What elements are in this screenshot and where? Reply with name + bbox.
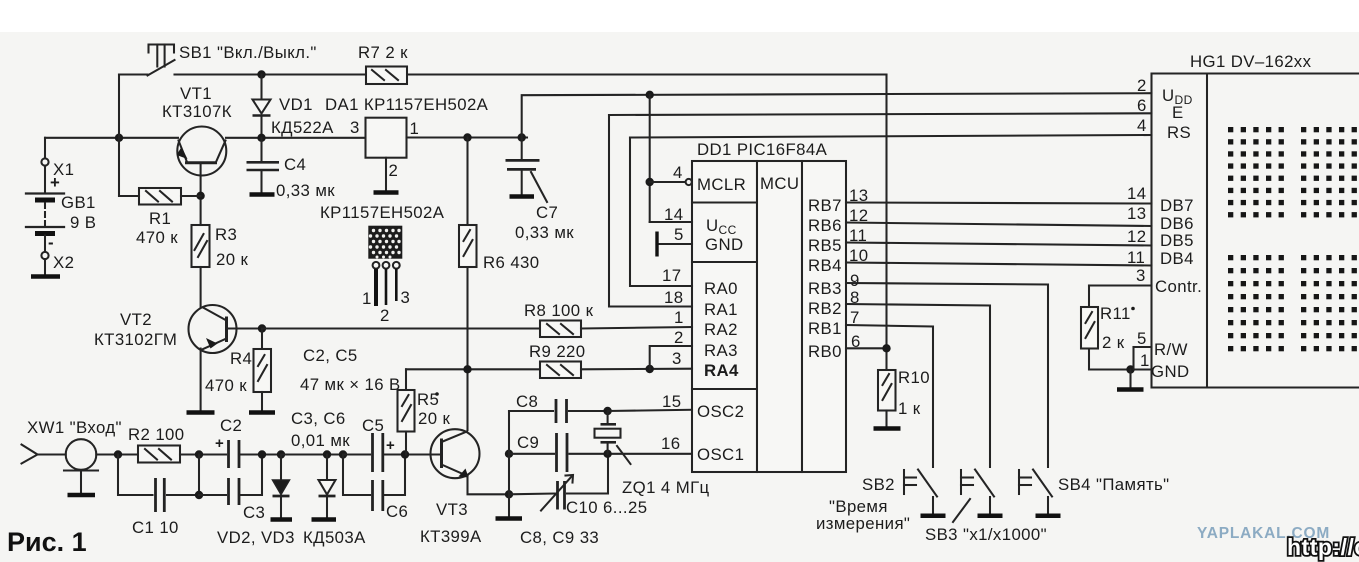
svg-text:КД522А: КД522А <box>271 118 334 137</box>
svg-text:+: + <box>386 437 395 454</box>
svg-text:470 к: 470 к <box>205 376 247 395</box>
svg-text:17: 17 <box>662 266 681 285</box>
svg-text:3: 3 <box>401 288 411 307</box>
node emitter ground <box>505 490 513 498</box>
wire VT2 emitter ground <box>200 349 202 411</box>
svg-text:C3: C3 <box>243 503 265 522</box>
capacitor C8 <box>509 410 553 412</box>
capacitor C6 branch <box>343 455 370 496</box>
wire R3 to VT2 collector <box>200 267 202 307</box>
svg-text:R9 220: R9 220 <box>529 342 586 361</box>
pin 11 RB5 wire <box>846 243 1152 246</box>
svg-text:1: 1 <box>410 119 420 138</box>
capacitor C9 <box>509 453 554 455</box>
node ZQ1 bottom <box>603 450 611 458</box>
regulator DA1 box <box>366 118 407 158</box>
svg-text:13: 13 <box>1127 204 1146 223</box>
svg-text:0,01 мк: 0,01 мк <box>291 431 350 450</box>
svg-text:9 В: 9 В <box>70 213 96 232</box>
svg-text:RB7: RB7 <box>808 196 842 215</box>
svg-text:SB4 "Память": SB4 "Память" <box>1058 475 1170 494</box>
svg-text:2 к: 2 к <box>1102 333 1125 352</box>
svg-text:C2, C5: C2, C5 <box>303 346 358 365</box>
svg-text:4: 4 <box>1137 116 1147 135</box>
svg-text:1: 1 <box>362 289 372 308</box>
svg-text:RS: RS <box>1167 123 1191 142</box>
svg-text:20 к: 20 к <box>216 250 249 269</box>
resistor R6 <box>466 138 468 226</box>
svg-text:OSC1: OSC1 <box>697 445 744 464</box>
svg-text:8: 8 <box>850 288 860 307</box>
node VD1-C4 <box>257 134 265 142</box>
svg-text:RA3: RA3 <box>704 341 738 360</box>
pin 3 wire <box>581 368 692 371</box>
svg-text:12: 12 <box>1127 227 1146 246</box>
svg-text:КР1157ЕН502А: КР1157ЕН502А <box>320 203 445 222</box>
svg-text:0,33 мк: 0,33 мк <box>276 181 335 200</box>
node C2 out <box>258 450 266 458</box>
wire X1 to battery <box>44 166 46 192</box>
wire X1 to top rail <box>44 138 46 159</box>
wire SB1 left vertical <box>118 75 120 197</box>
svg-text:КТ3107К: КТ3107К <box>162 102 232 121</box>
wire MCLR from +5 rail <box>646 91 654 99</box>
svg-text:ZQ1 4 МГц: ZQ1 4 МГц <box>622 478 710 497</box>
svg-text:VT2: VT2 <box>120 310 152 329</box>
svg-text:R3: R3 <box>215 225 237 244</box>
svg-text:SB2: SB2 <box>862 475 895 494</box>
svg-text:14: 14 <box>664 205 683 224</box>
connector X1 <box>41 158 48 165</box>
LCD dot matrix <box>1228 127 1357 351</box>
node C1 left <box>114 450 122 458</box>
svg-text:измерения": измерения" <box>816 514 910 533</box>
svg-text:2: 2 <box>674 328 684 347</box>
node VT2 base R4 <box>258 324 266 332</box>
svg-text:SB3 "x1/x1000": SB3 "x1/x1000" <box>925 525 1047 544</box>
C10 arrow <box>541 476 573 511</box>
resistor R11 <box>1089 284 1152 286</box>
svg-text:3: 3 <box>1136 266 1146 285</box>
svg-text:DA1 КР1157ЕН502А: DA1 КР1157ЕН502А <box>325 95 489 114</box>
svg-text:18: 18 <box>664 288 683 307</box>
svg-text:SB1 "Вкл./Выкл.": SB1 "Вкл./Выкл." <box>179 43 317 62</box>
svg-text:2: 2 <box>1137 76 1147 95</box>
svg-text:1: 1 <box>674 308 684 327</box>
svg-text:КТ399А: КТ399А <box>420 527 482 546</box>
resistor R2 <box>138 446 180 463</box>
svg-text:RB0: RB0 <box>808 342 842 361</box>
wire R5 to R9 rail <box>406 368 540 370</box>
svg-text:2: 2 <box>380 306 390 325</box>
svg-text:VT1: VT1 <box>180 84 212 103</box>
svg-text:DB4: DB4 <box>1160 249 1194 268</box>
svg-text:470 к: 470 к <box>136 228 178 247</box>
svg-text:R4: R4 <box>230 349 252 368</box>
SB3 leader line <box>953 499 970 522</box>
button SB3 <box>960 470 962 494</box>
svg-text:C1 10: C1 10 <box>132 518 179 537</box>
wire VD2 to VD3 <box>281 453 343 455</box>
svg-text:12: 12 <box>849 206 868 225</box>
diode VD1 <box>260 75 262 100</box>
node R6 R9 <box>463 365 471 373</box>
svg-text:C3, C6: C3, C6 <box>291 409 346 428</box>
svg-text:R1: R1 <box>149 209 171 228</box>
wire E line <box>609 113 1152 115</box>
svg-text:7: 7 <box>850 308 860 327</box>
svg-text:VD1: VD1 <box>279 95 313 114</box>
pin 7 RB1 wire to SB2 <box>846 325 933 467</box>
svg-text:C6: C6 <box>386 502 408 521</box>
ground C7 <box>510 194 535 199</box>
svg-text:DB7: DB7 <box>1160 196 1194 215</box>
svg-text:RB3: RB3 <box>808 279 842 298</box>
wire DA1 out <box>407 136 528 138</box>
ground battery <box>31 274 60 279</box>
svg-text:RB4: RB4 <box>808 256 842 275</box>
svg-text:1: 1 <box>1140 351 1150 370</box>
pin 13 RB7 wire <box>846 203 1152 204</box>
node R2 out <box>195 450 203 458</box>
svg-text:11: 11 <box>849 226 867 245</box>
pin 9 RB3 wire to SB4 <box>846 283 1048 467</box>
resistor R1 <box>139 188 181 205</box>
svg-text:C9: C9 <box>517 433 539 452</box>
pin 5 GND stub <box>658 243 692 245</box>
svg-text:GND: GND <box>705 235 744 254</box>
diode VD3 <box>326 455 328 480</box>
pin 1 wire <box>581 327 692 329</box>
svg-text:3: 3 <box>672 349 682 368</box>
wire top rail left <box>45 137 178 139</box>
svg-text:3: 3 <box>350 118 360 137</box>
pin 10 RB4 wire <box>846 263 1152 266</box>
svg-text:RB2: RB2 <box>808 299 842 318</box>
wire RS line <box>630 135 1152 138</box>
crystal ZQ1 <box>607 411 609 423</box>
svg-text:КТ3102ГМ: КТ3102ГМ <box>94 330 177 349</box>
svg-text:C8, C9 33: C8, C9 33 <box>520 528 599 547</box>
pin 12 RB6 wire <box>846 223 1152 227</box>
connector X2 <box>41 252 48 259</box>
svg-text:15: 15 <box>662 392 681 411</box>
svg-text:OSC2: OSC2 <box>697 402 744 421</box>
svg-text:XW1 "Вход": XW1 "Вход" <box>27 418 122 437</box>
node ZQ1 top <box>603 407 611 415</box>
ground XW1 <box>68 493 96 498</box>
node VD3 <box>323 450 331 458</box>
resistor R5 <box>405 369 407 390</box>
svg-text:R/W: R/W <box>1154 340 1188 359</box>
wire SB1 to R7 and beyond <box>175 73 887 75</box>
MCU DD1 left box <box>692 161 757 472</box>
svg-text:10: 10 <box>849 246 868 265</box>
svg-text:-: - <box>48 233 54 252</box>
pin 6 RB0 wire <box>846 347 887 349</box>
ZQ1 leader line <box>617 446 631 464</box>
svg-text:E: E <box>1172 103 1184 122</box>
DA1 pin2 ground <box>385 158 387 190</box>
svg-text:Contr.: Contr. <box>1155 277 1202 296</box>
svg-text:16: 16 <box>661 434 680 453</box>
battery GB1 cell 1 <box>26 192 64 194</box>
resistor R10 <box>878 370 896 411</box>
svg-text:R8 100 к: R8 100 к <box>524 301 594 320</box>
svg-text:+: + <box>50 173 60 192</box>
svg-text:Рис. 1: Рис. 1 <box>7 527 87 557</box>
resistor R7 <box>366 67 407 85</box>
svg-text:GB1: GB1 <box>61 193 96 212</box>
svg-text:RB6: RB6 <box>808 216 842 235</box>
wire VT1 collector to VD1 node <box>226 137 366 139</box>
capacitor C2 <box>227 440 230 468</box>
button SB2 <box>903 470 905 494</box>
svg-text:47 мк × 16 В: 47 мк × 16 В <box>300 375 401 394</box>
ground R10 <box>885 411 887 427</box>
svg-text:DD1 PIC16F84A: DD1 PIC16F84A <box>697 140 828 159</box>
node C7 top <box>518 133 526 141</box>
svg-text:MCU: MCU <box>760 174 799 193</box>
svg-text:GND: GND <box>1151 362 1190 381</box>
node VD1 top <box>257 70 265 78</box>
svg-text:R6 430: R6 430 <box>483 253 540 272</box>
svg-text:5: 5 <box>1137 329 1147 348</box>
svg-text:2: 2 <box>389 161 399 180</box>
switch SB1 <box>119 73 148 75</box>
capacitor C5 <box>343 453 370 455</box>
svg-text:C2: C2 <box>220 416 242 435</box>
capacitor C3 branch <box>199 494 226 496</box>
svg-text:RB1: RB1 <box>808 319 842 338</box>
pin 18 wire from E line <box>609 115 692 307</box>
capacitor C4 <box>260 138 262 161</box>
wire R2 to C2 <box>180 453 226 455</box>
svg-text:VD2, VD3: VD2, VD3 <box>217 528 295 547</box>
wire XW1 to R2 <box>96 453 138 455</box>
pin 15 wire <box>608 410 692 411</box>
svg-text:R7 2 к: R7 2 к <box>358 43 408 62</box>
svg-text:RA1: RA1 <box>704 300 738 319</box>
R/W bracket <box>1134 346 1152 348</box>
svg-text:6: 6 <box>1137 96 1147 115</box>
svg-text:VT3: VT3 <box>436 500 468 519</box>
svg-text:RA0: RA0 <box>704 279 738 298</box>
svg-text:MCLR: MCLR <box>697 175 746 194</box>
wire +5 rail up corner <box>522 93 1152 137</box>
svg-text:11: 11 <box>1127 248 1145 267</box>
ground emitter <box>508 494 510 516</box>
node C5 left <box>339 450 347 458</box>
svg-text:6: 6 <box>851 332 861 351</box>
svg-text:5: 5 <box>674 225 684 244</box>
MCU DD1 middle box <box>757 161 802 472</box>
pin 4 MCLR circle <box>650 181 686 183</box>
svg-text:20 к: 20 к <box>418 409 451 428</box>
resistor R9 <box>540 362 581 379</box>
svg-text:R11: R11 <box>1100 304 1131 323</box>
battery GB1 cell 2 <box>26 226 64 228</box>
ground C4 <box>250 192 275 197</box>
svg-text:4: 4 <box>673 163 683 182</box>
node R6 top <box>463 133 471 141</box>
svg-text:C8: C8 <box>516 392 538 411</box>
pin 8 RB2 wire to SB3 <box>846 304 990 467</box>
resistor R3 <box>192 225 210 267</box>
package pins <box>373 262 380 269</box>
svg-text:C5: C5 <box>362 416 384 435</box>
transistor VT2 <box>189 305 237 353</box>
svg-text:http://с: http://с <box>1287 534 1359 560</box>
transistor VT3 <box>431 429 480 478</box>
resistor R8 <box>262 327 540 329</box>
pin 17 wire from RS line <box>630 138 692 287</box>
svg-text:R2 100: R2 100 <box>128 425 185 444</box>
svg-text:DB5: DB5 <box>1160 231 1194 250</box>
node C8 C9 left <box>505 450 513 458</box>
transistor VT1 <box>177 127 226 176</box>
MCU DD1 right box <box>802 161 846 472</box>
svg-text:RB5: RB5 <box>808 236 842 255</box>
C7 leader line <box>531 172 547 202</box>
svg-text:R10: R10 <box>898 368 930 387</box>
svg-text:1 к: 1 к <box>898 399 921 418</box>
wire VT3 emitter <box>468 476 510 494</box>
svg-text:X2: X2 <box>53 253 74 272</box>
button SB4 <box>1018 470 1020 494</box>
svg-text:14: 14 <box>1127 184 1146 203</box>
svg-text:C7: C7 <box>536 203 558 222</box>
svg-text:C4: C4 <box>284 155 306 174</box>
resistor R4 <box>261 329 263 350</box>
ground R11 <box>1129 370 1131 388</box>
LCD HG1 box <box>1152 74 1359 388</box>
svg-text:КД503А: КД503А <box>303 528 366 547</box>
svg-text:HG1 DV–162xx: HG1 DV–162xx <box>1190 52 1312 71</box>
battery dashed link <box>44 203 46 225</box>
node R1-R3-VT1 base <box>196 192 204 200</box>
node R5 bottom <box>401 450 409 458</box>
svg-text:13: 13 <box>849 186 868 205</box>
svg-text:RA2: RA2 <box>704 320 738 339</box>
node VD2 <box>277 450 285 458</box>
pin 14 wire <box>650 221 692 223</box>
node RA3 RA4 bracket <box>646 365 654 373</box>
wire X2 to ground <box>44 259 46 275</box>
diode VD2 <box>280 455 282 480</box>
svg-text:+: + <box>215 435 224 452</box>
capacitor C10 branch <box>509 492 555 495</box>
svg-text:RA4: RA4 <box>704 361 739 380</box>
wire R7 to RB0 vertical <box>885 75 887 371</box>
capacitor C1 branch <box>118 455 153 496</box>
node X1 rail and SB1 vertical <box>115 134 123 142</box>
svg-text:C10 6...25: C10 6...25 <box>566 498 647 517</box>
capacitor C7 <box>521 138 523 160</box>
wire battery to X2 <box>44 236 46 253</box>
svg-text:0,33 мк: 0,33 мк <box>515 223 574 242</box>
